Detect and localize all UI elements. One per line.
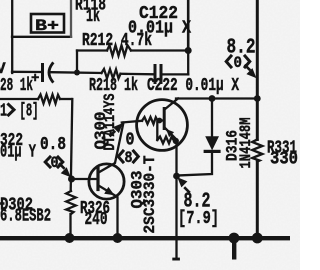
transistor Q303 collector path up to Q300 base [99, 123, 124, 173]
junction dot emitter-diode node [173, 173, 180, 180]
resistor R326 [66, 191, 76, 214]
Q300 internal base resistor R1 [142, 117, 158, 124]
heavy bracket right of 0 (left callout) [58, 157, 63, 167]
svg-text:0: 0 [126, 131, 135, 151]
heavy bracket after 1 annotation [9, 105, 15, 116]
svg-text:8: 8 [125, 149, 133, 167]
svg-text:[7.9]: [7.9] [178, 209, 219, 229]
B+ label box [31, 14, 64, 33]
Q303 base wire [72, 178, 97, 180]
terminal foot below bus at x176 [172, 258, 180, 261]
wire R326 to ground bus [69, 214, 71, 238]
svg-text:1N4148M: 1N4148M [237, 118, 255, 169]
block outline right edge [70, 0, 72, 37]
heavy bracket left of 8 callout [118, 151, 123, 162]
svg-text:330: 330 [270, 150, 298, 170]
callout arrow to Q300 base corner [113, 123, 123, 133]
svg-text:[8]: [8] [20, 102, 39, 122]
bus dot Q303 emitter [113, 233, 123, 243]
svg-text:0: 0 [51, 154, 59, 172]
left vertical wire down to Q303 base node [71, 99, 73, 191]
heavy bracket right of 0 (top right callout) [245, 56, 250, 67]
Q300 emitter vertical long wire [175, 140, 177, 259]
junction dot C122 node [185, 47, 192, 54]
Q300 emitter diagonal [165, 128, 177, 140]
resistor R218 [102, 69, 121, 78]
Q300 emitter arrow (PNP) [166, 129, 174, 137]
svg-text:0.8: 0.8 [40, 135, 66, 155]
svg-text:B+: B+ [35, 17, 59, 35]
wire B horizontal rail [12, 71, 41, 73]
svg-text:R212 4.7k: R212 4.7k [82, 31, 152, 51]
wire Q303 collector corner to Q300 base resistor [122, 121, 142, 123]
capacitor C222 plates [154, 66, 157, 83]
wire B corner up to node [187, 51, 189, 75]
transistor Q303 circle [89, 164, 124, 199]
callout arrow to Q303 base node [61, 167, 71, 177]
Q303 emitter arrow (NPN) [104, 187, 114, 195]
wire A horizontal R212 rail [77, 49, 107, 51]
junction dot Q300 base node [157, 118, 163, 124]
left wire y99 rail [0, 98, 38, 100]
diode D316 cathode wire to node [177, 153, 212, 176]
junction dot wireB node [74, 70, 80, 76]
svg-text:28 1k: 28 1k [0, 76, 33, 96]
junction dot Q300 R2-emitter node [173, 138, 179, 144]
junction dot collector rail at right bus [254, 95, 261, 102]
svg-text:0: 0 [234, 54, 243, 72]
diode D316 cathode bar [204, 150, 221, 153]
heavy bracket right of 8 callout [134, 151, 139, 162]
Q300 base node stub to bar [160, 119, 164, 121]
resistor R212 [107, 45, 131, 55]
Q300 base bar [163, 109, 166, 129]
right bus vertical lower [256, 162, 259, 238]
transistor Q303 base bar [96, 169, 99, 190]
transistor Q303 emitter path to bus [99, 186, 118, 237]
diode D316 triangle [205, 136, 219, 150]
callout arrow to emitter-diode node [177, 177, 187, 187]
bus dot right bus [252, 233, 263, 244]
heavy bracket left of 0 (top right callout) [226, 56, 231, 67]
bus dot stub [229, 233, 240, 244]
svg-text:240: 240 [85, 210, 108, 230]
resistor R331 in right bus [252, 140, 262, 162]
heavy bracket left of 0 (left callout) [45, 157, 50, 167]
svg-text:01µ Y: 01µ Y [0, 143, 36, 163]
wire A vertical from node to wire B [76, 51, 78, 74]
Q300 internal resistor R2 [157, 137, 174, 144]
collector top rail to right bus [176, 97, 258, 99]
junction dot Q303 base node [68, 176, 75, 183]
svg-text:R218 1k: R218 1k [89, 76, 138, 96]
svg-text:2SC3330-T: 2SC3330-T [141, 155, 159, 233]
svg-text:1: 1 [0, 102, 7, 122]
diode D316 anode wire [211, 99, 213, 137]
svg-text:6.8ESB2: 6.8ESB2 [0, 207, 51, 227]
capacitor C128 straight plate [41, 65, 44, 81]
callout arrow to right bus [246, 68, 256, 78]
junction dot diode top node [209, 95, 216, 102]
transistor Q300 circle [137, 100, 188, 151]
svg-text:DTA114YS: DTA114YS [101, 93, 119, 150]
bus dot R326 [65, 233, 75, 243]
block outline bottom edge [12, 36, 71, 38]
svg-text:1k: 1k [86, 7, 100, 27]
resistor R328 left [38, 95, 60, 104]
wire bus vertical to C122 node [187, 0, 190, 51]
ground bus bottom [0, 236, 290, 240]
capacitor C128 curved plate [49, 64, 53, 82]
svg-text:C222 0.01µ X: C222 0.01µ X [147, 76, 239, 96]
svg-text:+: + [31, 71, 39, 87]
block outline left edge [11, 0, 13, 73]
stub below bus at x234 [232, 239, 236, 260]
Q300 collector line to top rail [165, 99, 179, 110]
Q300 internal resistor R2 vertical link [156, 122, 158, 140]
right bus vertical upper [256, 0, 259, 140]
